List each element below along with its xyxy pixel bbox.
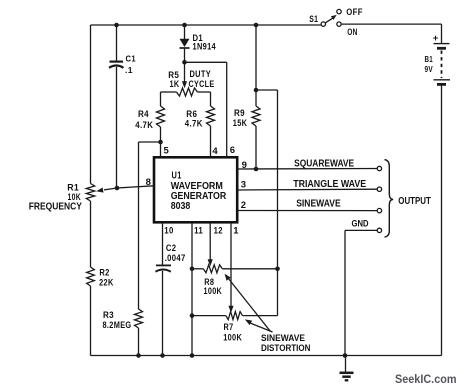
svg-text:12: 12: [214, 226, 223, 237]
capacitor C1: [110, 60, 124, 62]
wire R9 upper: [255, 25, 257, 106]
svg-text:6: 6: [230, 145, 236, 156]
wire R5 left to R4: [160, 92, 162, 106]
svg-text:2: 2: [241, 200, 247, 211]
svg-text:SQUAREWAVE: SQUAREWAVE: [294, 158, 354, 169]
resistor R6: [207, 106, 215, 126]
output terminal sinewave: [377, 208, 381, 212]
svg-text:OFF: OFF: [346, 7, 363, 17]
svg-text:SeekIC.com: SeekIC.com: [395, 372, 457, 386]
node top rail / C1: [114, 23, 119, 28]
svg-text:FREQUENCY: FREQUENCY: [29, 202, 82, 213]
svg-text:3: 3: [241, 180, 247, 191]
output terminal squarewave: [377, 166, 381, 170]
node bottom rail / ground: [343, 353, 348, 358]
svg-text:TRIANGLE WAVE: TRIANGLE WAVE: [293, 179, 366, 190]
switch S1 common terminal: [321, 22, 325, 26]
ground: [345, 356, 347, 373]
svg-text:OUTPUT: OUTPUT: [398, 195, 431, 207]
svg-text:100K: 100K: [204, 286, 223, 296]
svg-text:R9: R9: [234, 108, 245, 118]
switch S1 OFF terminal: [337, 9, 341, 13]
node top rail / D1: [182, 23, 187, 28]
potentiometer R1: [86, 184, 94, 202]
battery B1 cell1 long plate: [434, 43, 450, 45]
resistor R3: [135, 309, 143, 328]
svg-text:11: 11: [194, 226, 203, 237]
svg-text:4.7K: 4.7K: [185, 119, 203, 129]
resistor R4: [157, 106, 165, 127]
node D1 / pin6 jog: [182, 60, 187, 65]
svg-text:.0047: .0047: [165, 253, 186, 263]
wire pin 8: [104, 186, 154, 190]
battery B1 dashed body: [441, 51, 443, 79]
wire D1 to R5 wiper: [184, 62, 186, 82]
wire pin10 lower: [162, 271, 164, 356]
svg-text:R3: R3: [103, 310, 114, 320]
svg-text:ON: ON: [347, 27, 358, 37]
wire R4 to pin5: [160, 127, 162, 158]
node pin8 / C1: [115, 186, 120, 191]
wire right rail lower: [441, 85, 443, 356]
svg-text:5: 5: [164, 146, 170, 157]
node bottom rail / pin11: [190, 353, 195, 358]
svg-text:4.7K: 4.7K: [135, 120, 153, 130]
node top rail / R9: [254, 23, 259, 28]
svg-text:SINEWAVE: SINEWAVE: [261, 333, 305, 343]
wire pin12 to R8 wiper: [209, 222, 211, 260]
wire right rail upper: [441, 24, 443, 43]
output terminal trianglewave: [377, 187, 381, 191]
node pin5 / branch: [158, 140, 163, 145]
node R9 jog: [254, 88, 259, 93]
svg-text:R2: R2: [99, 267, 109, 277]
battery B1 cell2 short plate: [437, 83, 446, 86]
svg-text:R7: R7: [224, 322, 234, 332]
callout arrow to R8: [229, 279, 271, 332]
potentiometer R8 body: [192, 268, 203, 270]
wire pin10 upper: [162, 222, 164, 266]
wire R6 to pin4: [210, 126, 212, 158]
wire top rail: [91, 24, 322, 26]
svg-text:8.2MEG: 8.2MEG: [103, 320, 132, 330]
resistor R9: [252, 106, 260, 126]
wire jog to R8 column: [256, 89, 278, 91]
svg-text:CYCLE: CYCLE: [189, 79, 215, 89]
svg-text:4: 4: [212, 146, 218, 157]
wire D1 anode: [184, 25, 186, 39]
output brace: [385, 160, 394, 238]
wire R8-R7 right link: [277, 269, 279, 316]
svg-text:100K: 100K: [223, 333, 242, 343]
node pin9 / R9: [254, 167, 259, 172]
op-amp U1 box: [154, 157, 237, 222]
svg-text:9V: 9V: [425, 64, 434, 74]
svg-text:1: 1: [233, 226, 239, 237]
wire left rail lower: [90, 286, 92, 356]
diode D1: [180, 39, 190, 47]
wire left rail upper: [90, 25, 92, 184]
wire R5 right to R6: [210, 92, 212, 106]
svg-text:+: +: [433, 33, 439, 44]
node R8 left: [190, 267, 195, 272]
svg-text:10: 10: [164, 226, 173, 237]
wire pin11: [191, 222, 193, 355]
svg-text:S1: S1: [309, 14, 318, 24]
svg-text:GND: GND: [352, 219, 369, 230]
resistor R2: [87, 267, 95, 286]
wire ON terminal to battery: [341, 23, 441, 25]
node bottom rail / C2: [160, 353, 165, 358]
svg-text:SINEWAVE: SINEWAVE: [296, 199, 341, 210]
wire sinewave (pin 2): [237, 210, 377, 212]
svg-text:15K: 15K: [233, 118, 248, 128]
node bottom rail / R3: [136, 353, 141, 358]
svg-text:B1: B1: [425, 54, 434, 64]
potentiometer R7 body: [192, 315, 226, 317]
wire R3 to bottom rail: [138, 328, 140, 356]
wire bottom rail: [91, 355, 442, 357]
switch S1 ON terminal: [337, 22, 341, 26]
wire GND: [345, 229, 377, 231]
output terminal GND: [377, 228, 381, 232]
wire left rail middle: [90, 201, 92, 267]
svg-text:10K: 10K: [68, 192, 82, 202]
svg-text:1K: 1K: [170, 79, 180, 89]
wire squarewave (pin 9): [237, 168, 377, 171]
wire branch to R3 top: [139, 141, 161, 143]
svg-text:8038: 8038: [171, 201, 191, 212]
svg-text:C1: C1: [126, 53, 137, 63]
svg-text:DISTORTION: DISTORTION: [261, 343, 311, 353]
node R8 right: [275, 267, 280, 272]
callout arrow to R7: [251, 323, 273, 332]
wire R9 to pin9: [255, 126, 257, 169]
svg-text:DUTY: DUTY: [190, 69, 212, 79]
wire C1 lower: [116, 67, 118, 188]
svg-text:1N914: 1N914: [193, 42, 217, 52]
capacitor C2: [156, 264, 171, 266]
potentiometer R5 body: [161, 91, 177, 93]
wire pin1 to R7 wiper: [230, 222, 232, 307]
svg-text:R1: R1: [67, 182, 79, 192]
battery B1 cell1 short plate: [437, 47, 446, 50]
battery B1 cell2 long plate: [434, 79, 451, 81]
node R7 left: [190, 313, 195, 318]
wire trianglewave (pin 3): [237, 188, 377, 191]
wire D1 cathode: [184, 48, 186, 62]
switch S1 arm: [325, 18, 333, 23]
svg-text:.1: .1: [125, 65, 133, 75]
svg-text:C2: C2: [166, 243, 177, 253]
svg-text:R4: R4: [138, 109, 149, 119]
svg-text:22K: 22K: [99, 277, 114, 287]
wire jog to pin 6: [185, 61, 227, 63]
wire C1 upper: [116, 25, 118, 61]
